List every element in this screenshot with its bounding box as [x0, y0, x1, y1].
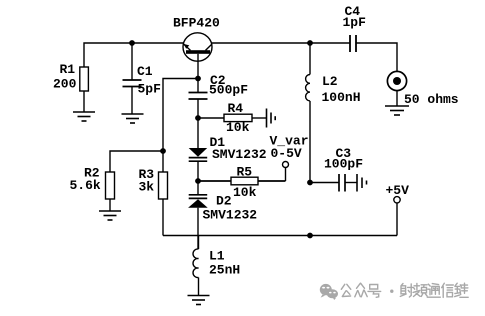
svg-text:50 ohms: 50 ohms [404, 92, 459, 107]
wire base node to left column [163, 79, 198, 173]
ground (under port) [385, 106, 409, 115]
wire top rail right segment [212, 42, 351, 44]
node base-C2 junction [195, 76, 201, 82]
svg-text:R5: R5 [237, 165, 253, 180]
resistor R5 [198, 177, 286, 185]
svg-text:L1: L1 [209, 249, 225, 264]
capacitor C1 [123, 43, 142, 114]
diode D1 varactor SMV1232 [189, 118, 208, 181]
svg-text:C1: C1 [137, 64, 153, 79]
resistor R3 [159, 172, 168, 236]
node D1-D2-R5 junction [195, 178, 201, 184]
label R5 value 10k [233, 165, 257, 201]
svg-text:25nH: 25nH [209, 263, 240, 278]
terminal +5V [394, 197, 400, 203]
wire R5 to V_var terminal [285, 168, 287, 182]
ground (under R2) [99, 211, 121, 220]
watermark text: gong [341, 283, 468, 297]
svg-text:D2: D2 [216, 194, 232, 209]
transistor Q1 BFP420 [183, 33, 212, 79]
label D2 SMV1232 [203, 194, 258, 223]
label C1 value 5pF [137, 64, 161, 97]
svg-text:10k: 10k [233, 185, 257, 200]
svg-text:R1: R1 [60, 62, 76, 77]
svg-text:100nH: 100nH [322, 90, 361, 105]
node bottom rail junction [307, 233, 313, 239]
inductor L1 [193, 236, 198, 296]
svg-text:500pF: 500pF [209, 83, 248, 98]
wire bottom rail [163, 235, 397, 237]
node C3 junction [307, 180, 313, 186]
svg-text:5.6k: 5.6k [70, 178, 101, 193]
port 50 ohms [387, 71, 406, 106]
watermark text: lian [455, 283, 469, 297]
label BFP420 [173, 16, 220, 31]
node junction C1-top [129, 40, 135, 46]
svg-text:5pF: 5pF [138, 82, 162, 97]
svg-text:+5V: +5V [386, 183, 410, 198]
label +5V [386, 183, 410, 198]
watermark text: xin [442, 283, 454, 297]
resistor R4 [198, 114, 266, 121]
watermark text: tong [427, 284, 440, 298]
label L1 value 25nH [209, 249, 240, 278]
resistor R2 [106, 172, 115, 211]
wire +5V riser [396, 203, 398, 236]
resistor R1 [80, 67, 89, 112]
ground (sideways, after C3) [357, 174, 367, 192]
watermark middle dot [390, 290, 393, 293]
label R3 value 3k [139, 167, 155, 195]
watermark text: pin [413, 283, 427, 296]
label L2 value 100nH [322, 74, 361, 105]
label R2 value 5.6k [70, 166, 101, 194]
diode D2 varactor SMV1232 [188, 181, 208, 249]
svg-text:SMV1232: SMV1232 [212, 147, 267, 162]
watermark logo wechat bubbles [320, 284, 338, 300]
capacitor C3 [310, 174, 357, 192]
svg-text:10k: 10k [226, 120, 250, 135]
svg-text:3k: 3k [139, 180, 155, 195]
ground (sideways, after R4) [267, 109, 276, 128]
node R2 junction [160, 148, 166, 154]
node L2-C4 top junction [307, 40, 313, 46]
label 50 ohms [404, 92, 459, 107]
wire to R2 [110, 151, 163, 172]
label D1 SMV1232 [210, 135, 267, 162]
capacitor C4 [350, 35, 356, 52]
label V_var 0-5V [270, 134, 309, 162]
terminal V_var 0-5V [283, 162, 289, 168]
node C2-R4-D1 junction [195, 115, 201, 121]
ground (under C1) [122, 114, 144, 123]
svg-text:0-5V: 0-5V [271, 146, 302, 161]
watermark text: zhong [355, 283, 367, 297]
svg-text:R4: R4 [228, 101, 244, 116]
label C3 value 100pF [324, 146, 363, 172]
watermark text: she [400, 284, 413, 298]
watermark text: hao [368, 285, 381, 298]
label R1 value 200 [53, 62, 77, 92]
inductor L2 [306, 43, 310, 183]
ground (under R1) [73, 112, 95, 121]
svg-text:SMV1232: SMV1232 [203, 208, 258, 223]
svg-text:1pF: 1pF [343, 15, 367, 30]
svg-text:200: 200 [53, 77, 77, 92]
capacitor C2 [189, 79, 208, 119]
svg-text:100pF: 100pF [324, 157, 363, 172]
label C4 value 1pF [343, 4, 367, 30]
wire top rail left segment [84, 43, 184, 67]
svg-text:BFP420: BFP420 [173, 16, 220, 31]
svg-text:L2: L2 [322, 74, 338, 89]
ground (under L1) [188, 296, 210, 305]
label R4 value 10k [226, 101, 250, 135]
wire C4 to right corner down to port [356, 43, 397, 71]
label C2 value 500pF [209, 73, 248, 98]
